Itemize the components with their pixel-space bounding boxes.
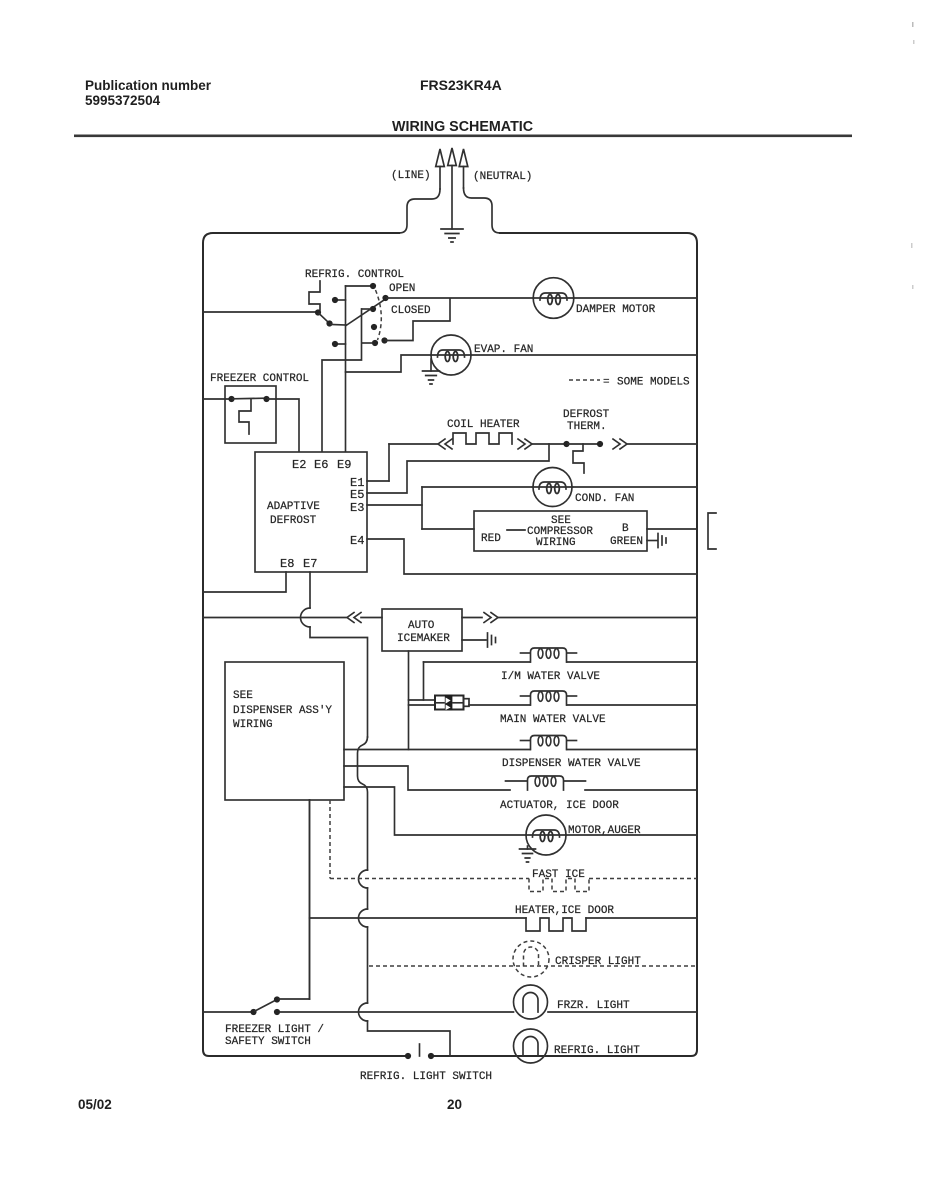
ground symbol below center arrow xyxy=(441,229,463,242)
E4 wire under compressor to right edge xyxy=(367,539,697,574)
bracket connector right of enclosure xyxy=(708,513,716,549)
svg-text:ICEMAKER: ICEMAKER xyxy=(397,633,450,645)
label SEE COMPRESSOR WIRING xyxy=(527,515,593,549)
wire dispenser box to actuator row xyxy=(344,766,510,790)
see dispenser assy wiring box xyxy=(225,662,344,800)
arrows left of icemaker xyxy=(347,613,361,623)
svg-text:REFRIG. LIGHT SWITCH: REFRIG. LIGHT SWITCH xyxy=(360,1071,492,1083)
long riser elbow to refrig light switch xyxy=(368,1021,451,1056)
legend dashed sample = SOME MODELS xyxy=(569,377,690,389)
freezer safety switch xyxy=(250,996,280,1015)
crisper light lamp (dashed) xyxy=(513,941,549,977)
svg-text:HEATER,ICE DOOR: HEATER,ICE DOOR xyxy=(515,905,614,917)
long riser hop over freezer light row xyxy=(359,1003,368,1021)
svg-text:DISPENSER ASS'Y: DISPENSER ASS'Y xyxy=(233,705,332,717)
wire I/M valve to right edge xyxy=(567,661,697,663)
freezer control sensor step xyxy=(239,399,251,434)
label DISPENSER WATER VALVE xyxy=(502,758,641,770)
wire from left edge to refrig control xyxy=(203,311,315,313)
outer enclosure border xyxy=(203,233,697,1056)
svg-text:(NEUTRAL): (NEUTRAL) xyxy=(473,171,532,183)
label FRZR. LIGHT xyxy=(557,1000,630,1012)
label (NEUTRAL) xyxy=(473,171,532,183)
heater ice door wire xyxy=(310,917,698,919)
wire from NEUTRAL arrow to box top-right xyxy=(464,188,501,233)
safety switch upper contact wire to riser xyxy=(279,800,310,999)
branch to I/M water valve xyxy=(409,662,424,700)
wire defrost therm to right edge xyxy=(628,443,697,445)
frzr light lamp xyxy=(514,985,548,1019)
dashed fast ice wire xyxy=(330,878,697,880)
arrows right of defrost therm xyxy=(613,439,627,449)
svg-text:WIRING: WIRING xyxy=(233,719,273,731)
wire cond fan to right edge xyxy=(572,486,697,488)
svg-text:REFRIG. LIGHT: REFRIG. LIGHT xyxy=(554,1045,640,1057)
wire freezer control to E2 riser xyxy=(268,399,299,451)
svg-text:EVAP. FAN: EVAP. FAN xyxy=(474,344,533,356)
svg-text:COIL HEATER: COIL HEATER xyxy=(447,419,520,431)
wire icemaker to right edge xyxy=(462,613,697,623)
long riser segment xyxy=(367,888,369,909)
svg-text:OPEN: OPEN xyxy=(389,283,415,295)
contact dot OPEN wire xyxy=(382,295,388,301)
E7 hop over icemaker wire xyxy=(301,608,311,627)
svg-text:20: 20 xyxy=(447,1097,462,1112)
wire left edge to freezer control xyxy=(203,398,229,400)
icemaker drop riser xyxy=(408,651,410,750)
wire actuator to right edge xyxy=(585,789,697,791)
svg-text:SEE: SEE xyxy=(233,690,253,702)
wire junction riser to cond fan xyxy=(422,487,533,529)
label OPEN xyxy=(389,283,415,295)
E7 riser down xyxy=(309,572,311,608)
adaptive defrost control box xyxy=(255,452,367,572)
contact dot mid-arc xyxy=(371,324,377,330)
see compressor wiring box xyxy=(474,511,647,551)
refrig light switch on bottom edge xyxy=(405,1044,434,1059)
E7 elbow to long riser xyxy=(310,627,368,737)
wire E9 riser to evap fan xyxy=(346,355,432,372)
main water valve solenoid xyxy=(521,691,577,705)
E3 wire to compressor xyxy=(367,504,422,506)
label AUTO ICEMAKER xyxy=(397,620,450,645)
svg-text:I/M WATER VALVE: I/M WATER VALVE xyxy=(501,671,600,683)
svg-text:DISPENSER WATER VALVE: DISPENSER WATER VALVE xyxy=(502,758,641,770)
dashed crisper light wire xyxy=(369,965,697,967)
actuator ice door solenoid xyxy=(506,776,586,790)
svg-text:E7: E7 xyxy=(303,557,317,571)
svg-text:COND. FAN: COND. FAN xyxy=(575,493,634,505)
svg-text:SAFETY SWITCH: SAFETY SWITCH xyxy=(225,1036,311,1048)
svg-text:FREEZER LIGHT /: FREEZER LIGHT / xyxy=(225,1024,324,1036)
label RED xyxy=(481,530,525,545)
svg-text:DAMPER MOTOR: DAMPER MOTOR xyxy=(576,304,656,316)
svg-text:DEFROST: DEFROST xyxy=(270,515,317,527)
defrost therm terminal dot right xyxy=(597,441,603,447)
refrig control common vertical (E9 riser) xyxy=(346,286,372,451)
svg-text:CLOSED: CLOSED xyxy=(391,305,431,317)
power entry arrow (LINE) xyxy=(436,149,445,189)
arrows right of coil heater xyxy=(518,439,532,449)
svg-text:WIRING SCHEMATIC: WIRING SCHEMATIC xyxy=(392,119,533,135)
closed-contact branch wire to damper wire xyxy=(381,299,450,344)
label HEATER, ICE DOOR xyxy=(515,905,614,917)
HEADER xyxy=(74,77,852,137)
contact dot arc bottom xyxy=(362,340,378,346)
arrows left of coil heater xyxy=(438,439,452,449)
label COIL HEATER xyxy=(447,419,520,431)
label I/M WATER VALVE xyxy=(501,671,600,683)
wire compressor B to right edge xyxy=(647,528,697,530)
svg-text:FRZR. LIGHT: FRZR. LIGHT xyxy=(557,1000,630,1012)
svg-text:ACTUATOR, ICE DOOR: ACTUATOR, ICE DOOR xyxy=(500,800,619,812)
power entry arrow (ground/center) xyxy=(448,148,457,229)
heater ice door resistor xyxy=(526,918,586,931)
auto icemaker box xyxy=(382,609,462,651)
wire dispenser box to motor auger xyxy=(344,787,526,835)
diode/connector main water valve xyxy=(435,695,469,711)
long riser hop over fast ice row xyxy=(359,870,368,888)
svg-text:MAIN WATER VALVE: MAIN WATER VALVE xyxy=(500,714,606,726)
label REFRIG. LIGHT SWITCH xyxy=(360,1071,492,1083)
long riser with jog around dispenser wires xyxy=(358,737,368,870)
wire between therm terminals xyxy=(568,443,597,445)
refrig control stub contact lower xyxy=(332,341,346,347)
wire to compressor box RED xyxy=(422,528,474,530)
wire left edge to auto icemaker xyxy=(203,617,382,619)
svg-text:MOTOR,AUGER: MOTOR,AUGER xyxy=(568,825,641,837)
svg-text:5995372504: 5995372504 xyxy=(85,93,161,108)
wire evap fan to right edge xyxy=(471,354,697,356)
dispenser box riser to heater row xyxy=(309,800,311,999)
svg-text:SOME MODELS: SOME MODELS xyxy=(617,377,690,389)
refrig control pivot contact xyxy=(315,309,346,326)
coil heater resistor xyxy=(453,433,512,444)
label (LINE) xyxy=(391,170,431,182)
labels E1 E5 E3 E4 xyxy=(350,476,364,548)
label MAIN WATER VALVE xyxy=(500,714,606,726)
wire diode to main valve coil xyxy=(469,704,530,706)
evap fan motor xyxy=(431,335,471,375)
svg-text:REFRIG. CONTROL: REFRIG. CONTROL xyxy=(305,269,404,281)
contact dot OPEN top xyxy=(370,283,376,289)
refrig control stub contact upper xyxy=(332,297,346,303)
labels E8 E7 xyxy=(280,557,317,571)
wire coil heater to defrost therm xyxy=(532,443,564,445)
svg-text:E6: E6 xyxy=(314,458,328,472)
wire from LINE arrow to box top-left xyxy=(399,189,440,233)
scan artifact dashes xyxy=(911,22,915,289)
wire to I/M water valve coil xyxy=(424,661,531,663)
wire main valve to right edge xyxy=(567,704,697,706)
svg-text:E5: E5 xyxy=(350,488,364,502)
damper motor M1 xyxy=(533,278,574,319)
refrig light lamp xyxy=(514,1029,548,1063)
refrig control thermostat step symbol xyxy=(309,281,320,310)
wire motor auger to right edge xyxy=(566,834,697,836)
svg-text:E8: E8 xyxy=(280,557,294,571)
label EVAP. FAN xyxy=(474,344,533,356)
label FREEZER LIGHT / SAFETY SWITCH xyxy=(225,1024,324,1048)
label FREEZER CONTROL xyxy=(210,373,309,385)
svg-text:CRISPER LIGHT: CRISPER LIGHT xyxy=(555,956,641,968)
dashed riser from dispenser box xyxy=(329,800,331,879)
svg-text:05/02: 05/02 xyxy=(78,1097,112,1112)
fast ice heater resistor (dashed) xyxy=(529,879,589,892)
svg-text:ADAPTIVE: ADAPTIVE xyxy=(267,501,320,513)
label DAMPER MOTOR xyxy=(576,304,656,316)
wire left edge to safety switch xyxy=(203,1011,251,1013)
dispenser water valve solenoid xyxy=(521,736,577,750)
label CRISPER LIGHT xyxy=(555,956,641,968)
label ACTUATOR, ICE DOOR xyxy=(500,800,619,812)
svg-text:E4: E4 xyxy=(350,534,364,548)
E6 riser from closed contact xyxy=(322,309,362,451)
label REFRIG. LIGHT xyxy=(554,1045,640,1057)
wire safety switch to frzr light xyxy=(280,1011,514,1013)
svg-text:E2: E2 xyxy=(292,458,306,472)
dashed selector arc xyxy=(376,290,382,340)
svg-text:DEFROST: DEFROST xyxy=(563,409,610,421)
label DEFROST THERM. xyxy=(563,409,610,433)
wire frzr light to right edge xyxy=(548,1011,697,1013)
svg-text:WIRING: WIRING xyxy=(536,537,576,549)
long riser segment 2 xyxy=(367,927,369,1003)
ground at evap fan xyxy=(423,359,440,384)
svg-text:FRS23KR4A: FRS23KR4A xyxy=(420,77,502,93)
power entry arrow (NEUTRAL) xyxy=(459,149,468,188)
wire open contact to damper motor and right edge xyxy=(387,297,697,299)
svg-text:B: B xyxy=(622,523,629,535)
contact dot CLOSED xyxy=(362,306,376,312)
label SEE DISPENSER ASS'Y WIRING xyxy=(233,690,332,731)
label REFRIG. CONTROL xyxy=(305,269,404,281)
svg-text:GREEN: GREEN xyxy=(610,536,643,548)
E5 riser to therm row xyxy=(367,444,549,493)
E1 riser to coil heater row xyxy=(367,444,437,481)
svg-text:FAST ICE: FAST ICE xyxy=(532,869,585,881)
branch wire upper to diode xyxy=(424,699,436,701)
svg-text:RED: RED xyxy=(481,533,501,545)
E8 wire to left edge xyxy=(203,572,286,592)
ground at compressor green xyxy=(647,534,666,548)
I/M water valve solenoid xyxy=(521,648,577,662)
label FAST ICE xyxy=(532,869,585,881)
svg-text:E3: E3 xyxy=(350,501,364,515)
defrost therm sensing element xyxy=(573,444,584,473)
motor auger xyxy=(526,815,566,855)
cond fan motor xyxy=(533,468,573,507)
freezer control switch contacts and blade xyxy=(228,396,269,402)
label ADAPTIVE DEFROST xyxy=(267,501,320,527)
svg-text:E9: E9 xyxy=(337,458,351,472)
label COND. FAN xyxy=(575,493,634,505)
svg-text:AUTO: AUTO xyxy=(408,620,435,632)
svg-text:THERM.: THERM. xyxy=(567,421,607,433)
wire dispenser valve to right edge xyxy=(567,749,697,751)
defrost therm terminal dot left xyxy=(563,441,569,447)
label CLOSED xyxy=(391,305,431,317)
svg-text:FREEZER CONTROL: FREEZER CONTROL xyxy=(210,373,309,385)
wire to diode xyxy=(409,704,436,706)
label B GREEN xyxy=(610,523,643,548)
freezer control box xyxy=(225,386,276,443)
ground at icemaker xyxy=(462,633,496,647)
ground at motor auger xyxy=(520,846,536,862)
long riser hop over heater row xyxy=(359,909,368,927)
refrig control switch blade xyxy=(346,300,384,326)
wire dispenser box to dispenser valve coil xyxy=(344,749,530,751)
svg-text:(LINE): (LINE) xyxy=(391,170,431,182)
svg-text:Publication number: Publication number xyxy=(85,78,212,93)
svg-text:=: = xyxy=(603,377,610,389)
labels E2 E6 E9 xyxy=(292,458,351,472)
label MOTOR, AUGER xyxy=(568,825,641,837)
